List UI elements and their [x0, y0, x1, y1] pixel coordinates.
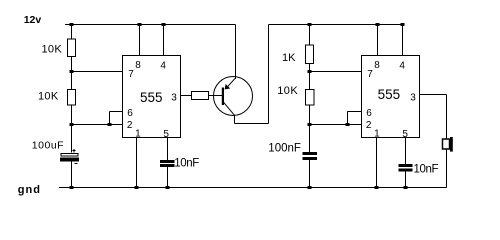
svg-text:10nF: 10nF [174, 157, 199, 169]
svg-text:12v: 12v [24, 14, 42, 26]
svg-text:10K: 10K [42, 43, 63, 55]
svg-text:7: 7 [367, 69, 373, 80]
svg-text:gnd: gnd [18, 184, 41, 196]
svg-text:1K: 1K [282, 52, 296, 64]
svg-text:10nF: 10nF [414, 163, 439, 175]
svg-text:3: 3 [410, 93, 416, 104]
svg-text:5: 5 [402, 129, 408, 140]
svg-text:1: 1 [135, 129, 141, 140]
svg-text:5: 5 [163, 129, 169, 140]
svg-text:555: 555 [378, 87, 401, 102]
svg-text:100uF: 100uF [32, 139, 64, 151]
svg-text:100nF: 100nF [268, 143, 301, 155]
svg-text:4: 4 [399, 60, 405, 71]
svg-text:1: 1 [374, 129, 380, 140]
svg-text:10K: 10K [277, 85, 298, 97]
svg-text:10K: 10K [38, 90, 59, 102]
svg-text:3: 3 [171, 93, 177, 104]
svg-text:8: 8 [135, 60, 141, 71]
svg-text:555: 555 [140, 90, 163, 105]
svg-text:6: 6 [127, 108, 133, 119]
svg-text:6: 6 [366, 108, 372, 119]
svg-text:2: 2 [366, 120, 372, 131]
svg-text:8: 8 [374, 60, 380, 71]
svg-text:7: 7 [128, 69, 134, 80]
svg-text:4: 4 [160, 60, 166, 71]
svg-text:2: 2 [127, 120, 133, 131]
